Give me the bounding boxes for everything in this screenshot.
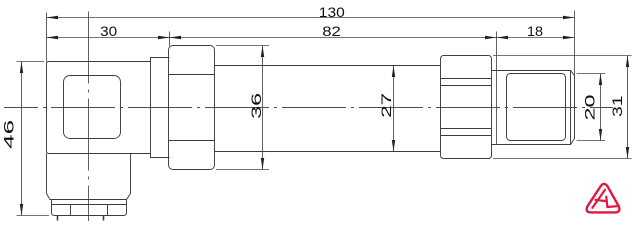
- terminal divider right: [107, 205, 109, 216]
- extension line nut-thread junction: [496, 32, 498, 145]
- hex nut right: [441, 56, 492, 159]
- hex facet line top: [169, 74, 215, 76]
- extension line hex left: [169, 32, 171, 47]
- arrow 31 bottom: [626, 147, 629, 159]
- connector terminal block: [52, 200, 127, 216]
- dimension 30 82 18 line: [47, 37, 575, 39]
- arrow 46 top: [20, 62, 23, 74]
- logo HL mark right leg: [606, 197, 607, 207]
- svg-text:31: 31: [609, 95, 625, 117]
- arrow 20 top: [599, 74, 602, 86]
- logo HL mark crossbar: [596, 200, 607, 201]
- svg-text:20: 20: [581, 94, 597, 120]
- extension line left end: [46, 13, 48, 62]
- hex facet line bottom: [169, 140, 215, 142]
- svg-text:46: 46: [0, 120, 16, 149]
- arrow 18 right: [563, 36, 575, 39]
- dim 31 extension top: [493, 55, 632, 57]
- dimension 130 line: [47, 17, 575, 19]
- centerline horizontal main axis: [4, 107, 613, 109]
- main cylinder bottom edge: [215, 151, 441, 153]
- logo red triangle: [587, 184, 620, 212]
- arrow 30 right: [158, 36, 170, 39]
- arrow 130 left: [47, 16, 59, 19]
- arrow 82 left: [170, 36, 182, 39]
- connector body outline: [47, 62, 151, 154]
- dim 20 extension bottom: [577, 140, 606, 142]
- neck cylinder: [151, 58, 170, 158]
- connector window rounded square: [64, 76, 121, 139]
- logo HL mark diagonal: [592, 190, 605, 208]
- logo HL mark foot: [607, 205, 617, 208]
- arrow 130 right: [563, 16, 575, 19]
- thread chamfer line: [570, 71, 572, 145]
- svg-text:82: 82: [322, 23, 341, 39]
- arrow 82 right: [485, 36, 497, 39]
- arrow 20 bottom: [599, 129, 602, 141]
- dim 31 extension bottom: [493, 158, 632, 160]
- arrow 27 bottom: [392, 140, 395, 152]
- extension line right end: [574, 11, 576, 76]
- right nut chamfer bottom: [441, 128, 492, 130]
- arrow 18 left: [497, 36, 509, 39]
- connector lower section: [47, 154, 131, 200]
- right nut facet bottom: [441, 135, 492, 137]
- dim 46 extension bottom: [17, 215, 50, 217]
- thread body rounded rect: [507, 74, 566, 141]
- thread stub outline: [492, 71, 575, 145]
- svg-text:27: 27: [378, 93, 394, 118]
- arrow 46 bottom: [20, 204, 23, 216]
- right nut facet top: [441, 78, 492, 80]
- dimension 36 line: [262, 46, 264, 170]
- dimension 31 line: [627, 56, 629, 159]
- centerline vertical connector axis: [88, 12, 90, 222]
- dim 20 extension top: [577, 73, 606, 75]
- main cylinder top edge: [215, 65, 441, 67]
- terminal block inner line: [52, 204, 127, 206]
- svg-text:130: 130: [319, 4, 345, 20]
- dimension 46 line: [21, 62, 23, 216]
- dim 46 extension top: [17, 61, 45, 63]
- terminal divider left: [70, 205, 72, 216]
- arrow 27 top: [392, 66, 395, 78]
- arrow 36 bottom: [261, 158, 264, 170]
- dim 36 extension top: [216, 45, 269, 47]
- svg-text:30: 30: [100, 23, 117, 39]
- dimension 20 line: [600, 74, 602, 141]
- svg-text:36: 36: [248, 93, 264, 119]
- dim 36 extension bottom: [216, 169, 269, 171]
- arrow 36 top: [261, 46, 264, 58]
- svg-text:18: 18: [527, 23, 543, 39]
- hex nut left: [169, 46, 215, 170]
- right nut chamfer top: [441, 85, 492, 87]
- arrow 30 left: [47, 36, 59, 39]
- dimension 27 line: [393, 66, 395, 152]
- terminal pin left: [57, 216, 59, 221]
- terminal pin right: [103, 216, 105, 221]
- arrow 31 top: [626, 56, 629, 68]
